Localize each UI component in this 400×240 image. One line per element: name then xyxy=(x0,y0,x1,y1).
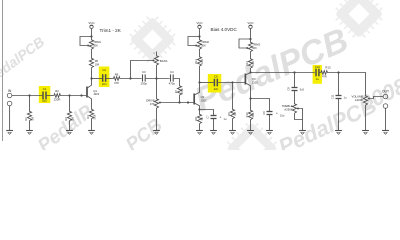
resistor R4 xyxy=(89,108,93,120)
wire TRIM2 to R11 xyxy=(199,51,201,56)
resistor R2 xyxy=(53,94,61,98)
trimmer TRIM3 xyxy=(239,38,253,53)
node R7 join xyxy=(178,101,180,103)
svg-text:C11: C11 xyxy=(331,94,335,99)
svg-text:5K6: 5K6 xyxy=(251,112,255,117)
svg-text:Trim1 - 2K: Trim1 - 2K xyxy=(100,28,122,33)
wire R12 to Q3 drain node xyxy=(250,70,252,73)
ground TREBLE xyxy=(299,131,306,135)
wire R9 down xyxy=(232,83,234,109)
wire R7 to gate rail xyxy=(179,97,181,103)
wire R3 to ground xyxy=(69,122,71,131)
svg-text:10K: 10K xyxy=(200,59,204,64)
svg-text:TRIM1: TRIM1 xyxy=(93,40,101,44)
svg-text:R2: R2 xyxy=(55,89,59,93)
resistor R9 xyxy=(230,108,234,120)
wire C10 to R13 xyxy=(318,72,321,74)
capacitor C6 xyxy=(200,82,214,84)
svg-text:R13: R13 xyxy=(325,65,331,69)
svg-text:C8: C8 xyxy=(287,87,291,91)
svg-text:R9: R9 xyxy=(227,112,231,116)
svg-text:BASS: BASS xyxy=(160,59,168,63)
power VCC1 xyxy=(90,25,93,28)
node Q1 drain xyxy=(90,77,92,79)
resistor R12 xyxy=(248,58,252,70)
svg-text:J201: J201 xyxy=(201,98,208,102)
svg-text:A250K: A250K xyxy=(284,107,293,111)
svg-text:R1: R1 xyxy=(24,117,28,121)
svg-text:TRIM3: TRIM3 xyxy=(252,42,260,46)
wire R4 to ground xyxy=(91,120,93,131)
resistor R8 xyxy=(199,110,201,114)
svg-text:1M: 1M xyxy=(233,112,237,116)
svg-text:220R: 220R xyxy=(54,98,61,102)
ground R8 xyxy=(196,131,203,135)
svg-text:22n: 22n xyxy=(214,87,219,91)
svg-text:10u: 10u xyxy=(280,113,285,117)
ground DRIVE xyxy=(153,131,160,135)
wire C8 branch down xyxy=(294,73,296,88)
svg-text:VCC: VCC xyxy=(247,21,254,25)
wire DRIVE to ground xyxy=(156,110,158,131)
wire C9 to ground xyxy=(269,115,271,131)
svg-text:R7: R7 xyxy=(174,89,178,93)
yellow highlight C1 xyxy=(39,86,51,103)
svg-text:A100K: A100K xyxy=(355,98,364,102)
capacitor C10 xyxy=(316,69,319,77)
node tone input xyxy=(129,77,131,79)
capacitor C2 xyxy=(92,78,102,80)
wire R3 down xyxy=(69,96,71,111)
wire C2 to R6 xyxy=(106,78,112,80)
trimmer TRIM1 xyxy=(80,35,94,50)
transistor Q1 xyxy=(87,79,92,109)
capacitor C7 xyxy=(211,116,217,119)
svg-text:R10: R10 xyxy=(245,112,249,117)
svg-text:R5: R5 xyxy=(95,59,99,63)
yellow highlight C2 xyxy=(99,67,110,88)
wire R1 down xyxy=(29,96,31,111)
node Q2 source xyxy=(198,108,200,110)
svg-text:47K: 47K xyxy=(322,74,327,78)
connector OUT xyxy=(383,94,388,108)
wire OUT sleeve to ground xyxy=(385,108,387,130)
wire IN sleeve to ground xyxy=(9,106,11,131)
svg-text:C1: C1 xyxy=(43,87,47,91)
resistor R11 xyxy=(197,56,201,68)
wire C7 to ground xyxy=(213,119,215,131)
svg-text:3n3: 3n3 xyxy=(300,87,305,91)
node R9 junction xyxy=(231,81,233,83)
capacitor C4 xyxy=(171,74,174,81)
yellow highlight C6 xyxy=(208,74,222,93)
svg-text:50K: 50K xyxy=(201,43,206,47)
svg-text:10K: 10K xyxy=(95,62,100,66)
svg-text:470p: 470p xyxy=(169,81,176,85)
ground R3 xyxy=(66,131,73,135)
svg-text:R6: R6 xyxy=(115,72,119,76)
wire VOLUME to ground xyxy=(365,107,367,131)
wire R2 to Q1 gate xyxy=(61,95,86,97)
wire VCC2 to TRIM2 xyxy=(199,29,201,39)
svg-text:+: + xyxy=(219,115,221,119)
wire R5 to drain node xyxy=(91,69,93,79)
node C8 junction xyxy=(293,71,295,73)
wire Q2 source to C7 xyxy=(200,110,214,116)
resistor R5 xyxy=(89,57,93,69)
svg-text:OUT: OUT xyxy=(382,90,389,94)
wire C11 branch xyxy=(338,73,340,96)
svg-text:C2: C2 xyxy=(102,68,106,72)
svg-text:1K: 1K xyxy=(200,117,204,120)
wire TRIM1 to R5 xyxy=(91,51,93,58)
ground C7 xyxy=(210,131,217,135)
wire gate rail Q2 xyxy=(162,102,193,104)
node BASS/rail cross xyxy=(155,77,157,79)
svg-text:10K: 10K xyxy=(251,61,255,66)
svg-text:50K: 50K xyxy=(93,43,98,47)
svg-text:C3: C3 xyxy=(142,70,146,74)
wire R9 to ground xyxy=(232,120,234,131)
ground R4 xyxy=(88,131,95,135)
svg-text:R11: R11 xyxy=(194,59,198,64)
pot BASS xyxy=(154,55,158,67)
node rail join xyxy=(187,101,189,103)
resistor R1 xyxy=(27,110,31,122)
resistor R7 xyxy=(177,85,181,97)
wire C11 to ground xyxy=(338,99,340,131)
ground IN xyxy=(6,131,13,135)
wire VCC1 to TRIM1 xyxy=(91,29,93,39)
resistor R3 xyxy=(67,110,71,122)
node Q3 source xyxy=(249,97,251,99)
svg-text:+: + xyxy=(276,112,278,116)
svg-text:C4: C4 xyxy=(170,70,174,74)
svg-text:IN: IN xyxy=(8,89,12,93)
svg-text:R12: R12 xyxy=(245,61,249,66)
pot DRIVE xyxy=(154,98,158,110)
node Q2 drain xyxy=(198,81,200,83)
svg-text:R4: R4 xyxy=(86,115,90,119)
node Q3 drain xyxy=(249,71,251,73)
svg-text:47n: 47n xyxy=(42,99,47,103)
wire C6 to Q3 gate xyxy=(218,82,245,84)
wire R8 to ground xyxy=(199,125,201,131)
svg-text:47K: 47K xyxy=(150,102,155,106)
transistor Q3 xyxy=(245,73,250,99)
capacitor C1 xyxy=(43,92,46,100)
wire VOLUME wiper to OUT xyxy=(371,97,383,99)
wire R13 to volume corner xyxy=(328,73,366,95)
pot TREBLE xyxy=(292,103,296,115)
ground R10 xyxy=(247,131,254,135)
svg-text:1M: 1M xyxy=(30,117,34,121)
wire BASS down to rail xyxy=(156,67,158,98)
wire C4 to R7 corner xyxy=(174,79,180,85)
connector IN xyxy=(7,93,12,106)
power VCC2 xyxy=(198,25,201,28)
svg-text:VCC: VCC xyxy=(88,21,95,25)
svg-text:47K: 47K xyxy=(114,81,119,85)
ground C9 xyxy=(266,131,273,135)
power VCC3 xyxy=(249,25,252,28)
capacitor C8 xyxy=(292,88,298,91)
svg-text:C7: C7 xyxy=(206,115,210,119)
wire C1 to R2 xyxy=(47,95,54,97)
svg-text:50K: 50K xyxy=(252,46,257,50)
trimmer TRIM2 xyxy=(188,35,202,50)
ground R1 xyxy=(26,131,33,135)
transistor Q2 xyxy=(194,83,199,110)
ground OUT xyxy=(382,131,389,135)
wire C8 to TREBLE xyxy=(294,91,296,103)
svg-text:250p: 250p xyxy=(141,81,148,85)
svg-text:J201: J201 xyxy=(93,92,100,96)
wire R10 to ground xyxy=(250,121,252,131)
svg-text:R8: R8 xyxy=(194,117,198,121)
node wire join xyxy=(80,94,82,96)
resistor R6 xyxy=(113,77,121,81)
wire TRIM3 to R12 xyxy=(250,53,252,58)
pot BASS wiper arrow xyxy=(151,60,154,62)
svg-text:1M: 1M xyxy=(70,117,74,121)
node C11 junction xyxy=(337,71,339,73)
ground C11 xyxy=(335,131,342,135)
wire R11 to Q2 drain node xyxy=(199,68,201,83)
svg-text:1u: 1u xyxy=(316,77,319,81)
wire TREBLE wiper and bottom to ground xyxy=(295,109,303,131)
capacitor C11 xyxy=(336,96,342,99)
ground VOLUME xyxy=(362,131,369,135)
svg-text:5K6: 5K6 xyxy=(92,114,96,119)
svg-text:C6: C6 xyxy=(214,75,218,79)
svg-text:VCC: VCC xyxy=(196,21,203,25)
svg-text:TRIM2: TRIM2 xyxy=(201,40,209,44)
wire C3 to C4 xyxy=(146,78,170,80)
svg-text:R3: R3 xyxy=(64,117,68,121)
capacitor C3 xyxy=(143,74,146,81)
svg-text:470K: 470K xyxy=(180,88,184,94)
wire R6 to C3 xyxy=(121,78,142,80)
wire R1 to ground xyxy=(29,122,31,131)
svg-text:J201: J201 xyxy=(252,80,259,84)
wire output rail xyxy=(251,72,315,74)
wire Q3 source to C9 xyxy=(251,99,270,112)
wire up to BASS rail xyxy=(131,61,152,79)
svg-text:C10: C10 xyxy=(315,65,320,69)
svg-text:C9: C9 xyxy=(262,111,266,115)
capacitor C9 xyxy=(267,112,273,115)
svg-text:22n: 22n xyxy=(102,82,107,86)
pot VOLUME xyxy=(363,95,367,107)
node R3 junction xyxy=(68,94,70,96)
resistor R13 xyxy=(320,71,328,75)
svg-text:Bias 4.0VDC: Bias 4.0VDC xyxy=(211,27,238,32)
ground R9 xyxy=(229,131,236,135)
wire input rail xyxy=(12,95,42,97)
node R1 junction xyxy=(28,94,30,96)
wire VCC3 to TRIM3 xyxy=(250,29,252,42)
resistor R10 xyxy=(250,99,252,110)
yellow highlight C10 xyxy=(313,65,322,84)
